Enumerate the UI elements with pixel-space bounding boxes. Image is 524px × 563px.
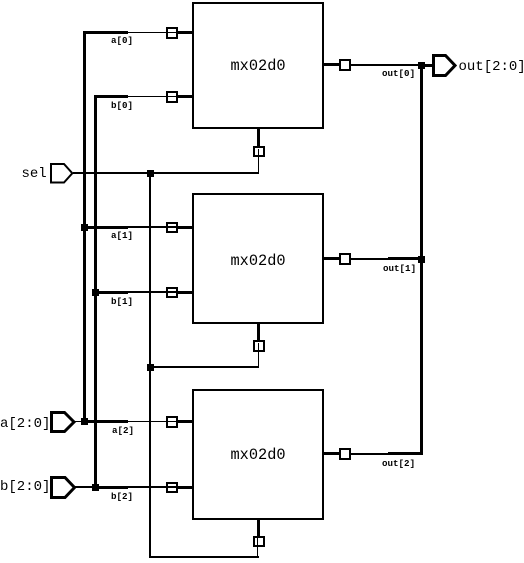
- junction out-bus rip out(1): [418, 256, 425, 263]
- wire b(1) pin stub: [177, 291, 194, 294]
- junction b-bus rip b(1): [92, 289, 99, 296]
- wire b(0) thin segment: [127, 96, 193, 98]
- pin U1 a(0): [166, 27, 178, 39]
- label net a(1): [111, 231, 133, 240]
- wire out(1) pin stub: [323, 257, 340, 260]
- wire U1 bottom pin stub: [257, 128, 260, 147]
- wire a(2) pin stub: [177, 420, 194, 423]
- wire out(0) pin stub: [323, 63, 340, 66]
- wire out(1) thick segment: [388, 257, 421, 260]
- mux U2 (mx02d0): [192, 193, 324, 324]
- wire b(1) thick segment: [96, 291, 129, 294]
- label port out[2:0]: [459, 60, 524, 74]
- wire a port tip to junction: [74, 421, 83, 423]
- wire b(2) thin segment: [127, 486, 193, 488]
- label net b(0): [111, 101, 133, 110]
- wire a(1) pin stub: [177, 226, 194, 229]
- junction sel net at x150 y367: [147, 364, 154, 371]
- pin U2 a(1): [166, 222, 178, 234]
- label net out(2): [382, 459, 415, 468]
- port b[2:0] symbol: [50, 476, 76, 499]
- wire out(2) pin stub: [323, 452, 340, 455]
- pin U2 sel: [253, 340, 265, 352]
- label port b[2:0]: [0, 480, 50, 494]
- wire b(0) pin stub: [177, 95, 194, 98]
- label net out(0): [382, 69, 415, 78]
- pin U2 b(1): [166, 287, 178, 299]
- wire out(2) thin segment: [349, 453, 389, 455]
- pin U3 sel: [253, 536, 265, 548]
- port sel symbol: [50, 163, 74, 184]
- wire b(0) thick segment: [94, 95, 128, 98]
- pin U3 b(2): [166, 482, 178, 494]
- wire out(1) thin segment: [349, 258, 389, 260]
- wire a(2) thick segment: [84, 420, 128, 423]
- port a[2:0] symbol: [50, 411, 76, 433]
- wire sel horizontal to U3: [149, 556, 260, 558]
- wire sel horizontal main: [73, 172, 259, 174]
- pin U3 out(2): [339, 448, 351, 460]
- wire out(2) thick segment: [388, 452, 423, 455]
- wire sel drop to U3 bottom pin: [257, 538, 259, 558]
- label net a(2): [112, 426, 134, 435]
- mux U1 (mx02d0): [192, 2, 324, 129]
- wire a-bus vertical: [83, 31, 86, 421]
- wire sel drop to U2 bottom pin: [258, 343, 260, 368]
- wire out-bus horizontal to port: [424, 64, 433, 67]
- wire b-bus vertical: [94, 95, 97, 487]
- junction sel net at x150 y173: [147, 170, 154, 177]
- wire b(2) thick segment: [96, 486, 129, 489]
- junction b-bus rip b(2) at port: [92, 484, 99, 491]
- label port sel: [22, 167, 47, 181]
- label U1 value mx02d0: [231, 59, 286, 74]
- wire sel drop to U1 bottom pin: [258, 149, 260, 174]
- port out[2:0] symbol: [432, 54, 457, 77]
- label port a[2:0]: [0, 417, 50, 431]
- wire out-bus vertical: [420, 64, 423, 455]
- pin U2 out(1): [339, 253, 351, 265]
- wire b(2) pin stub: [177, 486, 194, 489]
- pin U1 b(0): [166, 91, 178, 103]
- wire U3 bottom pin stub: [257, 519, 260, 537]
- wire U2 bottom pin stub: [257, 323, 260, 342]
- pin U1 out(0): [339, 59, 351, 71]
- wire a(0) thin segment: [127, 32, 193, 34]
- wire a(0) pin stub: [177, 31, 194, 34]
- label U2 value mx02d0: [231, 254, 286, 269]
- label net b(1): [111, 297, 133, 306]
- label net a(0): [111, 36, 133, 45]
- wire sel horizontal to U2: [149, 366, 259, 368]
- wire sel vertical distribution: [149, 172, 151, 558]
- label net b(2): [111, 492, 133, 501]
- wire a(0) thick segment: [83, 31, 128, 34]
- pin U1 sel: [253, 146, 265, 158]
- wire a(2) thin segment: [127, 421, 193, 423]
- wire a(1) thin segment: [127, 226, 193, 228]
- label U3 value mx02d0: [231, 448, 286, 463]
- label net out(1): [383, 264, 416, 273]
- junction a-bus rip a(1): [81, 224, 88, 231]
- mux U3 (mx02d0): [192, 389, 324, 520]
- wire b(1) thin segment: [127, 291, 193, 293]
- junction a-bus rip a(2) at port: [81, 418, 88, 425]
- junction out-bus rip out(0): [418, 62, 425, 69]
- wire out(0) thin segment: [349, 64, 418, 66]
- wire b port tip to junction: [75, 486, 93, 488]
- wire a(1) thick segment: [84, 226, 128, 229]
- pin U3 a(2): [166, 416, 178, 428]
